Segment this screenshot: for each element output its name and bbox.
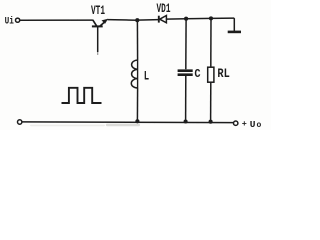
wire top left	[20, 19, 93, 21]
diode VD1	[159, 16, 167, 23]
svg-text:C: C	[194, 68, 200, 81]
scan smudge artifact	[106, 124, 140, 127]
wire node C down to resistor RL	[210, 18, 212, 67]
wire transistor to node A	[107, 19, 137, 22]
wire node C to ground	[211, 17, 234, 19]
junction dot bottom RL	[209, 120, 213, 124]
wire inductor to bottom wire	[136, 88, 138, 121]
pulse waveform drive signal	[62, 88, 102, 103]
wire node A down to inductor	[136, 20, 138, 60]
svg-text:o: o	[257, 121, 262, 130]
svg-text:L: L	[144, 70, 149, 84]
bottom wire	[22, 121, 234, 124]
terminal output Uo	[234, 121, 238, 125]
capacitor C	[178, 71, 193, 75]
node C junction dot	[209, 16, 213, 20]
svg-text:VD1: VD1	[157, 2, 171, 16]
node B junction dot	[184, 17, 188, 21]
transistor VT1	[92, 19, 108, 27]
transistor base lead	[97, 27, 99, 52]
svg-text:VT1: VT1	[91, 4, 105, 18]
inductor L	[131, 60, 137, 88]
svg-text:+: +	[242, 119, 247, 129]
ground	[228, 18, 241, 32]
wire node B to node C	[186, 17, 211, 19]
wire node A to diode	[137, 19, 158, 22]
svg-text:RL: RL	[217, 66, 230, 81]
resistor RL	[208, 67, 214, 82]
junction dot bottom L	[135, 119, 139, 123]
wire capacitor to bottom wire	[185, 76, 187, 122]
terminal input Ui	[16, 18, 20, 22]
wire node B down to capacitor	[185, 19, 187, 70]
node A junction dot	[135, 18, 139, 22]
wire resistor to bottom wire	[210, 82, 212, 122]
junction dot bottom C	[184, 119, 188, 123]
svg-text:Ui: Ui	[5, 15, 14, 27]
wire diode to node B	[166, 18, 186, 20]
svg-text:U: U	[250, 119, 256, 130]
terminal bottom left	[18, 120, 22, 124]
